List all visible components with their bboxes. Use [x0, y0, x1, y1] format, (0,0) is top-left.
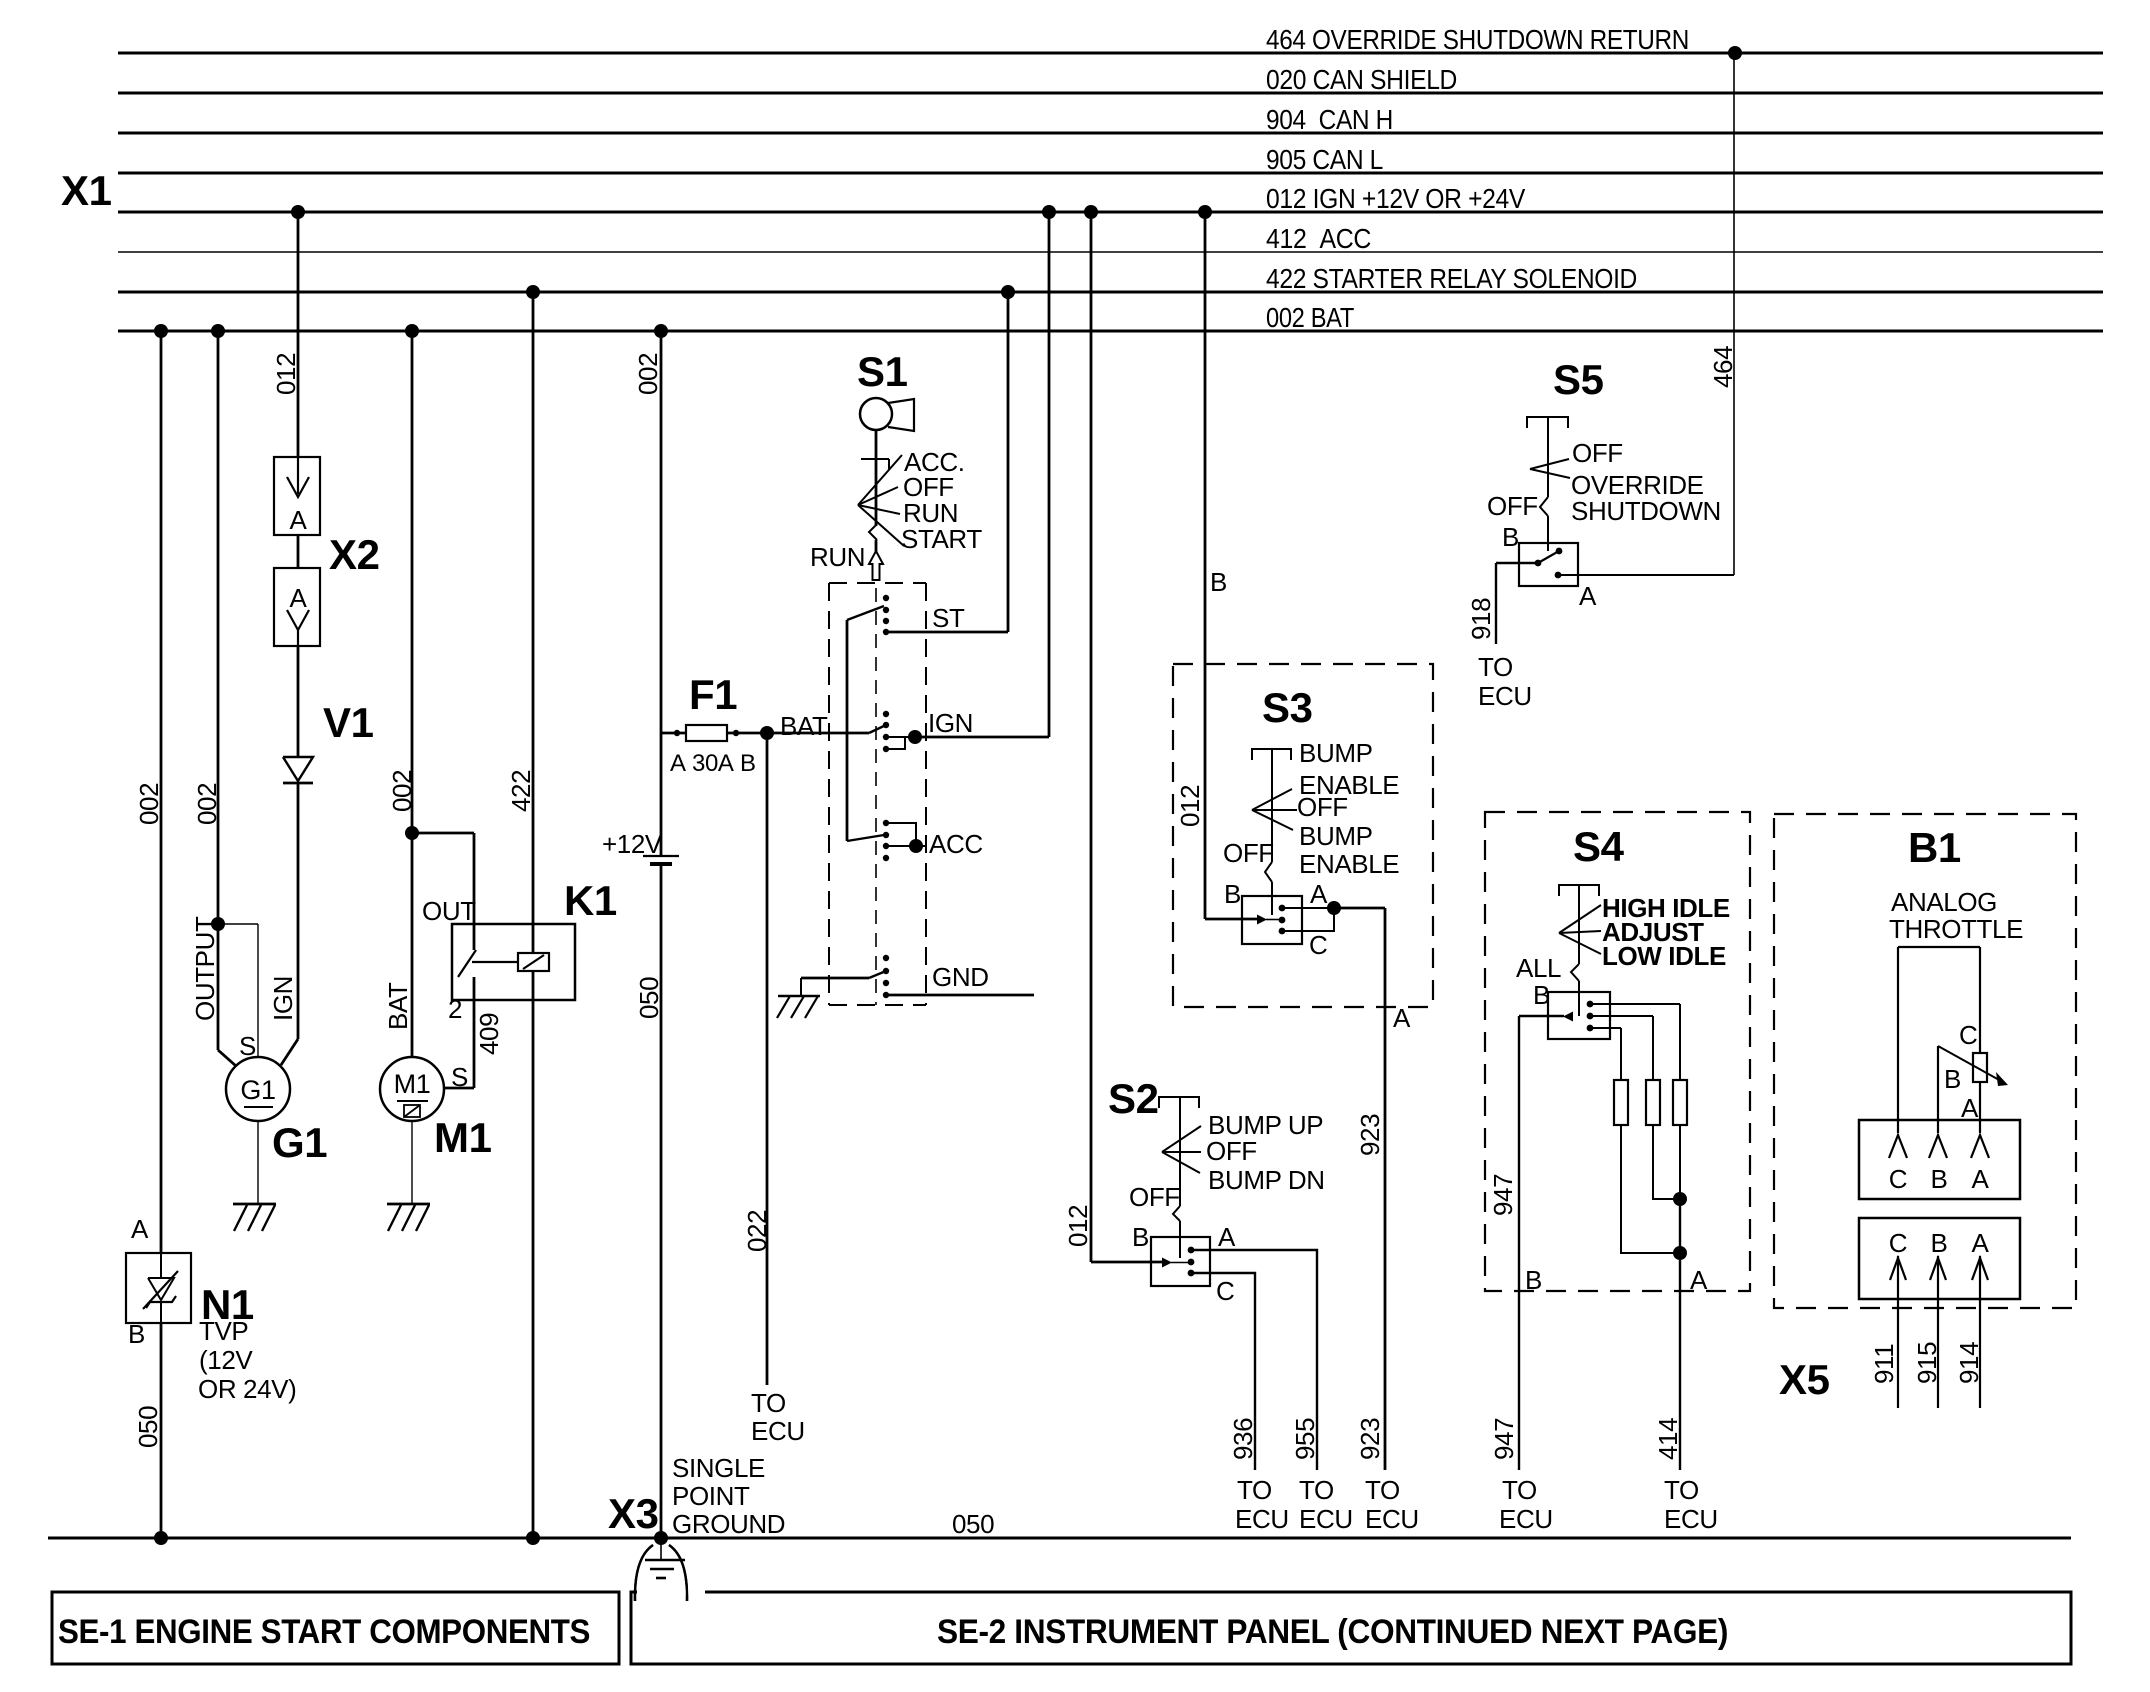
svg-text:LOW IDLE: LOW IDLE: [1602, 941, 1726, 971]
svg-text:TO: TO: [1237, 1475, 1272, 1505]
svg-text:ENABLE: ENABLE: [1299, 849, 1399, 879]
svg-text:905 CAN L: 905 CAN L: [1266, 144, 1383, 175]
connector X2 pin A top box: [274, 457, 320, 535]
switch S3 stem: [1271, 749, 1273, 862]
svg-text:OR 24V): OR 24V): [198, 1374, 296, 1404]
svg-text:2: 2: [448, 994, 462, 1024]
switch S3 contacts: [1279, 905, 1286, 912]
ground X3 bell gap: [637, 1589, 705, 1596]
wire OUT branch to K1: [412, 832, 474, 835]
svg-text:OUTPUT: OUTPUT: [190, 916, 220, 1021]
svg-text:F1: F1: [689, 671, 737, 718]
svg-text:G1: G1: [240, 1075, 275, 1105]
switch S1 position fan: [858, 455, 902, 505]
svg-text:B: B: [1224, 879, 1241, 909]
title box SE-2: [631, 1592, 2071, 1664]
connector S4 block: [1548, 992, 1610, 1039]
svg-text:936: 936: [1228, 1418, 1258, 1460]
svg-text:464: 464: [1708, 346, 1738, 388]
svg-text:THROTTLE: THROTTLE: [1889, 914, 2023, 944]
starter motor M1: [380, 1057, 444, 1121]
svg-text:A: A: [290, 583, 308, 613]
svg-text:BUMP: BUMP: [1299, 821, 1373, 851]
wire X1 bus 904&#160;&#160;CAN: [118, 132, 2103, 135]
svg-text:B: B: [1502, 522, 1519, 552]
wire 002 bus to G1 junction: [217, 331, 220, 924]
wire 464 S5 A to 464 bus: [1558, 574, 1734, 576]
node junction dot S3 A: [1327, 901, 1341, 915]
wire B1 wiper: [1937, 1046, 1939, 1133]
svg-text:OFF: OFF: [1297, 792, 1348, 822]
svg-text:B: B: [1944, 1064, 1961, 1094]
wire X1 bus 422: [118, 291, 2103, 294]
switch S3 dashed housing: [1173, 664, 1433, 1007]
node junction dot 012 bus at S3 wire: [1198, 205, 1212, 219]
wire X1 bus 012: [118, 211, 2103, 214]
wire G1 to ground: [257, 1121, 259, 1204]
svg-text:X1: X1: [61, 167, 112, 214]
svg-text:ACC: ACC: [929, 829, 983, 859]
svg-text:S5: S5: [1553, 356, 1604, 403]
ground M1: [387, 1203, 430, 1206]
wire 050 single point ground bus: [48, 1537, 2071, 1540]
ground G1: [233, 1203, 276, 1206]
node junction dot G1 output: [211, 917, 225, 931]
svg-text:A: A: [1579, 581, 1597, 611]
switch S2 T-bar: [1159, 1097, 1199, 1108]
svg-text:A: A: [290, 505, 308, 535]
node junction dot ground bus at K1 wire: [526, 1531, 540, 1545]
switch S1 spring zigzag: [869, 524, 877, 540]
wire 915 X5 B: [1937, 1256, 1939, 1408]
wire 002 bus to F1 and battery: [660, 331, 663, 855]
svg-text:002: 002: [387, 770, 417, 812]
wire S4 low idle branch: [1590, 1027, 1621, 1029]
node junction dot ACC: [909, 839, 923, 853]
svg-text:+12V: +12V: [602, 829, 663, 859]
svg-text:A: A: [1972, 1164, 1990, 1194]
wire 923 S3 to ECU: [1334, 907, 1385, 910]
wire 002 bus to N1: [160, 331, 163, 1253]
svg-text:OFF: OFF: [1206, 1136, 1257, 1166]
wire 947 S4 B to ECU: [1518, 1016, 1520, 1470]
node junction dot 422 bus at ST wire: [1001, 285, 1015, 299]
wire S3 A output: [1282, 907, 1334, 909]
svg-text:ECU: ECU: [1365, 1504, 1419, 1534]
svg-text:30A: 30A: [692, 750, 734, 777]
svg-text:V1: V1: [323, 699, 374, 746]
svg-text:TVP: TVP: [199, 1316, 248, 1346]
svg-text:464 OVERRIDE SHUTDOWN RETURN: 464 OVERRIDE SHUTDOWN RETURN: [1266, 24, 1689, 55]
svg-text:A: A: [131, 1214, 149, 1244]
svg-text:BUMP DN: BUMP DN: [1208, 1165, 1325, 1195]
svg-text:S4: S4: [1573, 823, 1625, 870]
wire 012 bus to S2 B: [1090, 212, 1093, 1262]
svg-text:TO: TO: [1478, 652, 1513, 682]
svg-text:414: 414: [1653, 1418, 1683, 1460]
svg-text:BAT: BAT: [780, 711, 828, 741]
svg-text:ECU: ECU: [1299, 1504, 1353, 1534]
svg-text:BUMP: BUMP: [1299, 738, 1373, 768]
svg-text:START: START: [901, 524, 982, 554]
svg-text:B: B: [1210, 567, 1227, 597]
switch S2 stem: [1179, 1097, 1181, 1206]
potentiometer B1: [1898, 946, 1980, 948]
node junction dot 002 bus at M1 wire: [405, 324, 419, 338]
svg-text:B: B: [1931, 1228, 1948, 1258]
node junction dot ground bus at X3: [654, 1531, 668, 1545]
relay K1 coil: [518, 953, 549, 971]
wire 002 bus to M1: [411, 331, 414, 1057]
node junction dot IGN: [886, 736, 915, 738]
relay K1 box: [452, 924, 575, 1000]
resistor S4 R2: [1646, 1080, 1660, 1125]
svg-text:B1: B1: [1908, 824, 1961, 871]
node junction dot 422 bus at K1 wire: [526, 285, 540, 299]
svg-text:A: A: [670, 750, 686, 777]
connector X5 lower block: [1859, 1218, 2020, 1299]
svg-text:915: 915: [1912, 1342, 1942, 1384]
svg-text:S1: S1: [857, 348, 908, 395]
svg-text:TO: TO: [1502, 1475, 1537, 1505]
switch S1 GND contacts: [883, 955, 889, 961]
svg-text:ECU: ECU: [1499, 1504, 1553, 1534]
node junction dot S4 R2-R3: [1673, 1192, 1687, 1206]
svg-text:918: 918: [1466, 598, 1496, 640]
svg-text:BAT: BAT: [383, 982, 413, 1030]
svg-text:C: C: [1889, 1228, 1907, 1258]
svg-text:B: B: [128, 1319, 145, 1349]
wire 955 S2 A to ECU: [1191, 1250, 1317, 1470]
svg-text:M1: M1: [434, 1114, 492, 1161]
node junction dot 012 bus at S2 wire: [1084, 205, 1098, 219]
svg-text:A: A: [1690, 1265, 1708, 1295]
svg-text:ECU: ECU: [1478, 681, 1532, 711]
node junction dot 012 bus at X2: [291, 205, 305, 219]
svg-text:022: 022: [742, 1210, 772, 1252]
svg-text:C: C: [1889, 1164, 1907, 1194]
wire S4 high idle branch: [1590, 1003, 1680, 1005]
svg-text:050: 050: [634, 977, 664, 1019]
resistor S4 R3: [1673, 1080, 1687, 1125]
switch S5 contacts and arm: [1556, 548, 1563, 555]
switch S2 position fan: [1162, 1126, 1201, 1152]
wire X2 link: [297, 535, 300, 568]
svg-text:ECU: ECU: [1235, 1504, 1289, 1534]
node junction dot 002 bus at F1 wire: [654, 324, 668, 338]
connector S2 block: [1151, 1237, 1210, 1286]
svg-text:A: A: [1972, 1228, 1990, 1258]
diode V1: [283, 757, 313, 781]
TVP suppressor N1: [126, 1253, 191, 1323]
svg-text:012 IGN +12V OR +24V: 012 IGN +12V OR +24V: [1266, 183, 1526, 214]
switch S4 arm arrow: [1563, 1012, 1573, 1022]
switch S4 T-bar: [1559, 885, 1599, 896]
wire GND output: [886, 994, 1034, 997]
svg-text:002: 002: [134, 783, 164, 825]
wire 414 S4 A to ECU: [1679, 1199, 1681, 1470]
svg-text:TO: TO: [1365, 1475, 1400, 1505]
svg-text:050: 050: [952, 1509, 994, 1539]
wire X1 bus 002: [118, 330, 2103, 333]
svg-text:012: 012: [1063, 1205, 1093, 1247]
svg-text:B: B: [1525, 1265, 1542, 1295]
switch S1 BAT feed line: [846, 620, 849, 841]
svg-text:A: A: [1393, 1003, 1411, 1033]
connector S3 block: [1242, 896, 1302, 944]
svg-text:OUT: OUT: [422, 896, 476, 926]
switch S1 IGN contacts: [883, 711, 889, 717]
connector B1 upper block: [1859, 1120, 2020, 1199]
wire 050 battery to ground bus: [660, 864, 663, 1538]
svg-text:S: S: [451, 1062, 468, 1092]
svg-text:A: A: [1961, 1093, 1979, 1123]
wire S4 adjust branch: [1590, 1015, 1653, 1017]
svg-text:ECU: ECU: [751, 1416, 805, 1446]
svg-text:947: 947: [1489, 1418, 1519, 1460]
switch S3 arm arrow: [1257, 915, 1267, 925]
switch S4 position fan: [1559, 905, 1601, 933]
node junction dot 464 bus: [1728, 46, 1742, 60]
svg-text:TO: TO: [1299, 1475, 1334, 1505]
node junction dot M1 OUT branch: [405, 826, 419, 840]
wire 022 BAT to ECU: [766, 733, 769, 1385]
resistor S4 R1: [1614, 1080, 1628, 1125]
svg-text:ALL: ALL: [1516, 953, 1561, 983]
svg-text:IGN: IGN: [928, 708, 973, 738]
wire 012 bus to S3 B: [1204, 212, 1207, 919]
svg-text:TO: TO: [1664, 1475, 1699, 1505]
wire M1 to ground: [411, 1121, 413, 1204]
switch S2 arm arrow: [1162, 1258, 1172, 1268]
switch S3 T-bar: [1252, 749, 1291, 760]
svg-text:020 CAN SHIELD: 020 CAN SHIELD: [1266, 64, 1457, 95]
wire 911 X5 C: [1897, 1256, 1899, 1408]
svg-text:X5: X5: [1779, 1356, 1830, 1403]
switch S4 contacts: [1587, 1001, 1594, 1008]
svg-text:IGN: IGN: [268, 976, 298, 1021]
svg-text:914: 914: [1954, 1342, 1984, 1384]
svg-text:947: 947: [1488, 1174, 1518, 1216]
svg-text:OFF: OFF: [1487, 491, 1538, 521]
wire OUTPUT to G1: [217, 924, 220, 1050]
svg-text:TO: TO: [751, 1388, 786, 1418]
svg-text:GND: GND: [932, 962, 989, 992]
title box SE-1: [52, 1592, 619, 1664]
wire 050 N1 to ground bus: [160, 1323, 163, 1538]
svg-text:OFF: OFF: [1129, 1182, 1180, 1212]
svg-text:B: B: [740, 750, 756, 777]
svg-text:SE-2 INSTRUMENT PANEL (CONTINU: SE-2 INSTRUMENT PANEL (CONTINUED NEXT PA…: [937, 1613, 1728, 1651]
wire M1 S terminal to K1 pin 2: [443, 1087, 474, 1090]
node junction dot ground bus at N1 wire: [154, 1531, 168, 1545]
svg-text:422: 422: [506, 770, 536, 812]
svg-text:923: 923: [1355, 1114, 1385, 1156]
relay K1 contact: [458, 950, 476, 977]
node junction dot 002 bus at G1 wire: [211, 324, 225, 338]
svg-text:B: B: [1132, 1222, 1149, 1252]
svg-text:OFF: OFF: [1223, 838, 1274, 868]
ground S1 GND: [800, 978, 802, 996]
svg-text:002: 002: [192, 783, 222, 825]
switch S1 key symbol: [860, 398, 892, 430]
svg-text:904 CAN H: 904 CAN H: [1266, 104, 1393, 135]
switch S4 stem: [1578, 885, 1580, 964]
svg-text:ST: ST: [932, 603, 965, 633]
switch S1 ST contacts: [883, 595, 889, 601]
switch S4 dashed housing: [1485, 812, 1750, 1291]
switch S5 stem: [1547, 417, 1549, 497]
svg-text:OFF: OFF: [1572, 438, 1623, 468]
svg-text:B: B: [1533, 980, 1550, 1010]
svg-text:M1: M1: [394, 1069, 431, 1099]
svg-text:(12V: (12V: [199, 1345, 253, 1375]
wire X1 bus 464: [118, 52, 2103, 55]
svg-text:G1: G1: [272, 1119, 327, 1166]
svg-text:955: 955: [1290, 1418, 1320, 1460]
svg-text:012: 012: [1175, 785, 1205, 827]
wire ST to 422 bus: [886, 631, 1008, 634]
wire S3 C output: [1282, 908, 1334, 931]
switch S5 T-bar: [1527, 417, 1568, 428]
svg-text:SE-1 ENGINE START COMPONENTS: SE-1 ENGINE START COMPONENTS: [58, 1613, 590, 1651]
svg-text:C: C: [1959, 1020, 1977, 1050]
svg-text:C: C: [1309, 930, 1327, 960]
wire X1 bus 905: [118, 172, 2103, 175]
svg-text:A: A: [1218, 1222, 1236, 1252]
switch S2 contacts: [1188, 1247, 1195, 1254]
svg-text:923: 923: [1355, 1418, 1385, 1460]
svg-text:K1: K1: [564, 877, 617, 924]
svg-text:S2: S2: [1108, 1075, 1159, 1122]
svg-text:409: 409: [474, 1013, 504, 1055]
svg-text:ANALOG: ANALOG: [1891, 887, 1997, 917]
svg-text:B: B: [1931, 1164, 1948, 1194]
svg-text:RUN: RUN: [810, 542, 865, 572]
generator G1: [226, 1057, 290, 1121]
wire IGN to 012 bus: [915, 736, 1049, 739]
svg-text:C: C: [1216, 1276, 1234, 1306]
wire 012 bus to X2: [297, 212, 300, 457]
svg-text:911: 911: [1869, 1344, 1899, 1384]
switch S5 position fan: [1530, 459, 1569, 469]
svg-text:012: 012: [271, 353, 301, 395]
switch S3 position fan: [1252, 789, 1292, 810]
node junction dot S4 R1 join: [1673, 1246, 1687, 1260]
switch S1 detent mark: [861, 458, 889, 460]
wire S1 key stem: [875, 430, 878, 526]
node junction dot BAT: [760, 726, 774, 740]
svg-text:422 STARTER RELAY SOLENOID: 422 STARTER RELAY SOLENOID: [1266, 263, 1637, 294]
switch S1 dashed housing: [829, 582, 926, 584]
svg-text:X3: X3: [608, 1490, 659, 1537]
node junction dot 012 bus at IGN wire: [1042, 205, 1056, 219]
wire X1 bus 020: [118, 92, 2103, 95]
svg-text:S3: S3: [1262, 684, 1313, 731]
svg-text:002 BAT: 002 BAT: [1266, 302, 1354, 333]
wire 918 S5 B to ECU: [1496, 562, 1538, 564]
svg-text:GROUND: GROUND: [672, 1509, 785, 1539]
svg-text:002: 002: [633, 353, 663, 395]
svg-text:POINT: POINT: [672, 1481, 750, 1511]
sensor B1 dashed housing: [1774, 814, 2076, 1308]
wire G1 S terminal: [218, 923, 258, 925]
wire 422 bus through K1 coil to ground bus: [532, 292, 535, 953]
svg-text:SINGLE: SINGLE: [672, 1453, 765, 1483]
wire 914 X5 A: [1979, 1256, 1981, 1408]
svg-text:SHUTDOWN: SHUTDOWN: [1571, 496, 1721, 526]
wire 936 S2 C to ECU: [1191, 1273, 1255, 1470]
svg-text:050: 050: [133, 1406, 163, 1448]
switch S1 ACC contacts: [883, 820, 889, 826]
connector S5 block: [1519, 543, 1578, 586]
node junction dot 002 bus at N1 wire: [154, 324, 168, 338]
connector X2 pin A bottom box: [274, 568, 320, 646]
wire X1 bus 412&#160;&#160;ACC: [118, 251, 2103, 253]
wire X2 to V1: [297, 646, 300, 757]
svg-text:A: A: [1310, 879, 1328, 909]
svg-text:ECU: ECU: [1664, 1504, 1718, 1534]
svg-text:X2: X2: [329, 531, 380, 578]
wire 012 V1 to G1 IGN: [297, 783, 300, 1039]
svg-text:412 ACC: 412 ACC: [1266, 223, 1371, 254]
